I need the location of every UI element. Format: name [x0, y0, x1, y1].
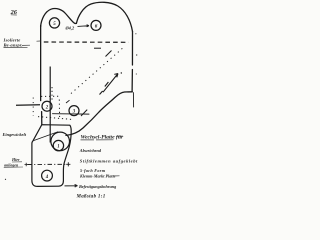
dotted box top [41, 95, 61, 97]
bottom arrow [65, 185, 78, 188]
svg-text:Befestigungsbohrung: Befestigungsbohrung [78, 184, 116, 189]
plate left edge lower segment [41, 112, 43, 125]
plate outline top dome [76, 2, 132, 31]
dotted vertical between holes [58, 100, 60, 118]
pencil dash lower right [81, 110, 87, 116]
hole callout circle 5 [49, 18, 59, 28]
svg-text:4: 4 [45, 175, 49, 180]
title underline [81, 136, 124, 140]
svg-text:Abweichend: Abweichend [79, 148, 102, 153]
bracket hole outer ring [51, 132, 70, 151]
plate outline top-left hump [41, 9, 77, 27]
lower bracket outline [32, 125, 71, 187]
leader from eingewickelt [34, 132, 59, 141]
svg-text:Hier: Hier [11, 157, 20, 162]
dotted vertical left margin [32, 98, 34, 117]
centerline dashed [44, 41, 129, 43]
hole callout circle 3 [69, 106, 79, 116]
svg-text:anliegen: anliegen [4, 162, 19, 167]
svg-text:Be-anspr.: Be-anspr. [3, 43, 23, 48]
plate right corner overshoot [132, 93, 134, 107]
svg-text:2: 2 [45, 105, 49, 110]
extra dash below centerline [94, 47, 101, 49]
svg-text:Eingewickelt: Eingewickelt [2, 132, 27, 137]
svg-text:Klemm-Markt Platte: Klemm-Markt Platte [79, 174, 116, 179]
right cross mark [66, 162, 70, 166]
hole callout circle 6 [91, 20, 101, 30]
heavy dash on diagonal [106, 51, 112, 57]
leader line into hole 2 [16, 104, 40, 107]
plate bottom edge [53, 113, 90, 115]
svg-text:Maßstab 1:1: Maßstab 1:1 [76, 194, 106, 199]
leader arrow to circle 6 [78, 25, 90, 27]
paper background [0, 0, 140, 202]
svg-text:Stiftklemmen aufgeklebt: Stiftklemmen aufgeklebt [80, 159, 138, 164]
svg-text:Wechsel-Platte für: Wechsel-Platte für [81, 134, 124, 140]
dotted vertical above box [51, 87, 53, 101]
dash-dot centerline lower [28, 163, 67, 165]
left cross mark [25, 163, 29, 166]
plate left edge [40, 26, 42, 101]
hole callout circle 1 [53, 140, 63, 150]
pencil arrow on diagonal [100, 74, 119, 95]
dotted diagonal construction line [71, 47, 125, 94]
svg-text:3: 3 [72, 110, 76, 115]
hole callout circle 4 [42, 170, 53, 181]
dotted box bottom [38, 117, 72, 120]
svg-text:Ø4,2: Ø4,2 [65, 25, 75, 30]
plate bottom-right sweeping curve [66, 92, 132, 136]
svg-text:1: 1 [57, 145, 59, 150]
svg-text:5-fach Form: 5-fach Form [80, 168, 106, 173]
bolt centerline vertical [49, 67, 51, 143]
hole callout circle 2 [42, 101, 52, 111]
stray specks right margin [135, 33, 136, 34]
svg-text:6: 6 [95, 24, 98, 30]
small dash near hole 3 [66, 100, 70, 103]
plate right edge [131, 32, 133, 92]
speck left margin [5, 179, 6, 180]
